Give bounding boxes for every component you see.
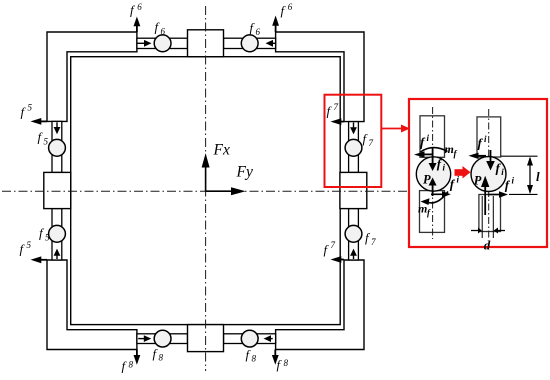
svg-text:6: 6	[137, 2, 142, 12]
svg-text:8: 8	[159, 353, 164, 363]
svg-text:m: m	[445, 142, 454, 156]
svg-text:6: 6	[288, 2, 293, 12]
svg-text:7: 7	[334, 102, 339, 112]
svg-text:5: 5	[44, 136, 49, 146]
svg-text:6: 6	[161, 26, 166, 36]
svg-text:7: 7	[331, 240, 336, 250]
svg-text:7: 7	[369, 138, 374, 148]
svg-text:m: m	[418, 201, 427, 215]
svg-text:5: 5	[45, 232, 50, 242]
svg-text:P: P	[423, 173, 431, 187]
svg-text:7: 7	[371, 237, 376, 247]
svg-text:P: P	[474, 174, 482, 188]
svg-text:l: l	[536, 169, 540, 184]
svg-text:8: 8	[252, 354, 257, 364]
svg-text:5: 5	[27, 240, 32, 250]
svg-text:8: 8	[284, 358, 289, 368]
svg-text:5: 5	[28, 103, 33, 113]
svg-text:8: 8	[129, 359, 134, 369]
svg-text:Fx: Fx	[213, 142, 230, 159]
svg-text:d: d	[484, 237, 491, 252]
svg-text:Fy: Fy	[236, 163, 253, 180]
svg-text:6: 6	[256, 27, 261, 37]
